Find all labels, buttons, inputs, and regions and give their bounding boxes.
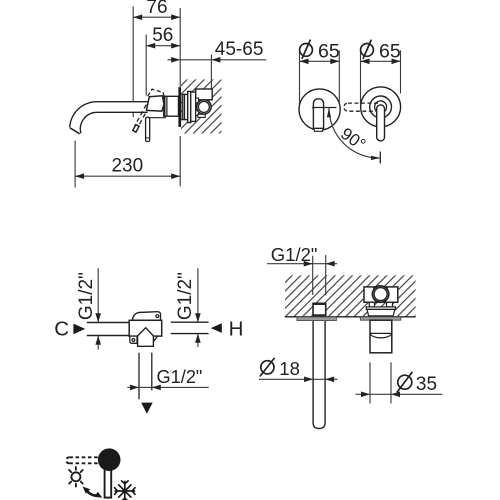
svg-text:65: 65	[318, 40, 340, 62]
svg-text:56: 56	[152, 25, 173, 46]
svg-text:C: C	[54, 317, 69, 340]
svg-text:35: 35	[416, 374, 437, 395]
svg-text:G1/2": G1/2"	[157, 367, 203, 387]
svg-text:230: 230	[111, 155, 143, 176]
svg-text:65: 65	[379, 40, 401, 62]
svg-text:G1/2": G1/2"	[271, 244, 318, 265]
svg-text:G1/2": G1/2"	[76, 272, 97, 320]
svg-text:18: 18	[279, 358, 300, 379]
svg-text:45-65: 45-65	[215, 39, 264, 60]
svg-text:H: H	[229, 318, 244, 341]
svg-text:76: 76	[146, 0, 167, 18]
svg-text:G1/2": G1/2"	[175, 272, 196, 320]
